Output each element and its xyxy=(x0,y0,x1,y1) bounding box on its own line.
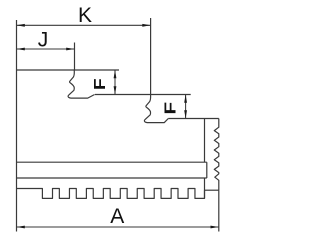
step 3 surface xyxy=(168,118,219,120)
right extension line to A dimension xyxy=(218,190,220,231)
bottom ledge under back face xyxy=(205,189,219,191)
svg-text:F: F xyxy=(162,102,179,115)
arrowhead J right xyxy=(66,48,74,51)
dimension line J xyxy=(17,48,75,50)
guideway band upper line xyxy=(17,161,207,163)
arrowhead A right xyxy=(211,226,219,229)
arrowhead J left xyxy=(17,48,25,51)
arrowhead A left xyxy=(17,226,25,229)
arrowhead F1 up xyxy=(114,70,117,78)
guideway band lower line xyxy=(17,177,207,179)
dimension line F upper xyxy=(114,70,116,95)
bottom serrated tooth profile xyxy=(17,189,205,199)
dimension line F lower xyxy=(185,95,187,119)
arrowhead K right xyxy=(142,24,150,27)
step 2 serrated clamping face with relief groove xyxy=(144,95,168,123)
step 1 serrated clamping face with relief groove xyxy=(68,70,95,98)
svg-text:F: F xyxy=(92,78,109,90)
dimension line A xyxy=(17,226,219,228)
arrowhead F2 up xyxy=(184,95,187,103)
svg-text:A: A xyxy=(110,205,124,228)
svg-text:K: K xyxy=(78,4,92,27)
arrowhead K left xyxy=(17,24,25,27)
serrated back face (right end) xyxy=(214,119,219,191)
K extension line xyxy=(150,18,152,95)
arrowhead F2 down xyxy=(184,110,187,118)
inner edge of serrated back section xyxy=(204,119,206,199)
svg-text:J: J xyxy=(38,29,49,52)
jaw left edge and A/K/J extension line xyxy=(16,20,18,232)
guideway tab right edge xyxy=(206,162,208,178)
jaw top step surface with F extension xyxy=(17,69,120,71)
step 2 surface with F extension xyxy=(95,94,191,96)
J extension line xyxy=(74,43,76,71)
dimension line K xyxy=(17,24,151,26)
arrowhead F1 down xyxy=(114,86,117,94)
